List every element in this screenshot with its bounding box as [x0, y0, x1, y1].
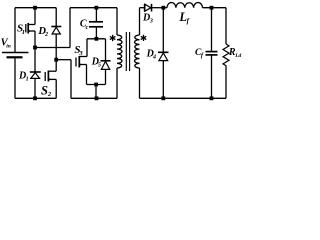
svg-text:2: 2 [47, 91, 52, 98]
svg-text:2: 2 [44, 32, 48, 38]
svg-text:f: f [201, 52, 204, 59]
svg-text:3: 3 [78, 50, 83, 57]
svg-text:5: 5 [98, 63, 101, 69]
svg-text:3: 3 [149, 19, 153, 25]
svg-text:Ld: Ld [234, 53, 241, 59]
svg-text:4: 4 [152, 55, 156, 61]
svg-text:f: f [187, 17, 190, 25]
svg-text:1: 1 [22, 29, 25, 36]
svg-text:c: c [86, 25, 89, 31]
svg-text:in: in [6, 44, 11, 50]
svg-text:1: 1 [26, 77, 29, 83]
